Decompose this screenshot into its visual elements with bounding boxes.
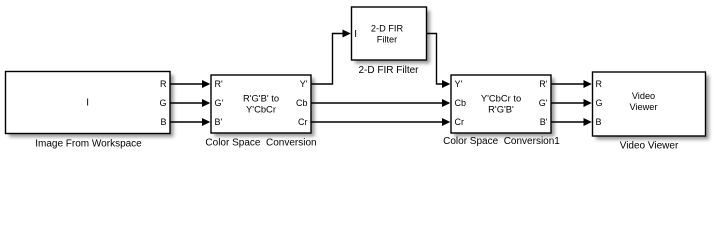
wire R: Image From Workspace to Color Space Conversion <box>170 80 210 88</box>
svg-text:G: G <box>596 98 603 108</box>
svg-text:R: R <box>160 79 167 89</box>
block Color Space Conversion (shadow) <box>215 79 315 137</box>
svg-text:Y': Y' <box>455 79 463 89</box>
svg-text:R'G'B' to: R'G'B' to <box>243 93 279 104</box>
block Color Space Conversion1 (shadow) <box>455 79 555 137</box>
svg-text:I: I <box>86 98 89 109</box>
svg-text:Cb: Cb <box>296 98 308 108</box>
svg-text:G': G' <box>539 98 548 108</box>
svg-text:B': B' <box>215 117 223 127</box>
svg-text:Filter: Filter <box>377 35 397 45</box>
svg-text:G: G <box>159 98 166 108</box>
svg-text:2-D FIR Filter: 2-D FIR Filter <box>359 65 420 76</box>
svg-text:Color Space Conversion1: Color Space Conversion1 <box>443 136 560 147</box>
svg-text:I: I <box>354 29 357 40</box>
svg-text:Viewer: Viewer <box>630 102 658 112</box>
svg-text:R: R <box>596 79 603 89</box>
svg-text:R': R' <box>539 79 547 89</box>
svg-text:Cr: Cr <box>455 117 465 127</box>
block Image From Workspace <box>6 72 171 134</box>
wire Cr: Color Space Conversion to Color Space Conversion1 <box>311 118 450 126</box>
svg-text:Image From Workspace: Image From Workspace <box>35 139 142 150</box>
block Image From Workspace (shadow) <box>9 75 174 137</box>
svg-text:Y'CbCr to: Y'CbCr to <box>481 93 521 104</box>
svg-text:Cb: Cb <box>455 98 467 108</box>
wire B': Color Space Conversion1 to Video Viewer <box>551 118 592 126</box>
svg-text:Y': Y' <box>300 79 308 89</box>
wire R': Color Space Conversion1 to Video Viewer <box>551 80 592 88</box>
wire Cb: Color Space Conversion to Color Space Conversion1 <box>311 99 450 107</box>
svg-text:R': R' <box>215 79 223 89</box>
wire 2-D FIR Filter to Y' of Color Space Conversion1 <box>427 34 451 89</box>
svg-text:R'G'B': R'G'B' <box>488 104 514 115</box>
svg-text:2-D FIR: 2-D FIR <box>371 24 404 34</box>
wire Y': Color Space Conversion to 2-D FIR Filter <box>311 30 351 85</box>
block Color Space Conversion1 <box>451 75 551 133</box>
wire G: Image From Workspace to Color Space Conversion <box>170 99 210 107</box>
svg-text:B: B <box>160 117 166 127</box>
svg-text:B: B <box>596 117 602 127</box>
block Color Space Conversion <box>211 75 311 133</box>
svg-text:G': G' <box>215 98 224 108</box>
block Video Viewer <box>593 72 706 136</box>
wire B: Image From Workspace to Color Space Conversion <box>170 118 210 126</box>
svg-text:B': B' <box>540 117 548 127</box>
svg-text:Cr: Cr <box>298 117 308 127</box>
block 2-D FIR Filter <box>352 7 427 60</box>
svg-text:Y'CbCr: Y'CbCr <box>246 104 276 115</box>
svg-text:Color Space Conversion: Color Space Conversion <box>205 138 316 149</box>
wire G': Color Space Conversion1 to Video Viewer <box>551 99 592 107</box>
block 2-D FIR Filter (shadow) <box>355 11 430 64</box>
svg-text:Video: Video <box>632 91 655 101</box>
svg-text:Video Viewer: Video Viewer <box>620 141 679 152</box>
block Video Viewer (shadow) <box>596 76 709 140</box>
